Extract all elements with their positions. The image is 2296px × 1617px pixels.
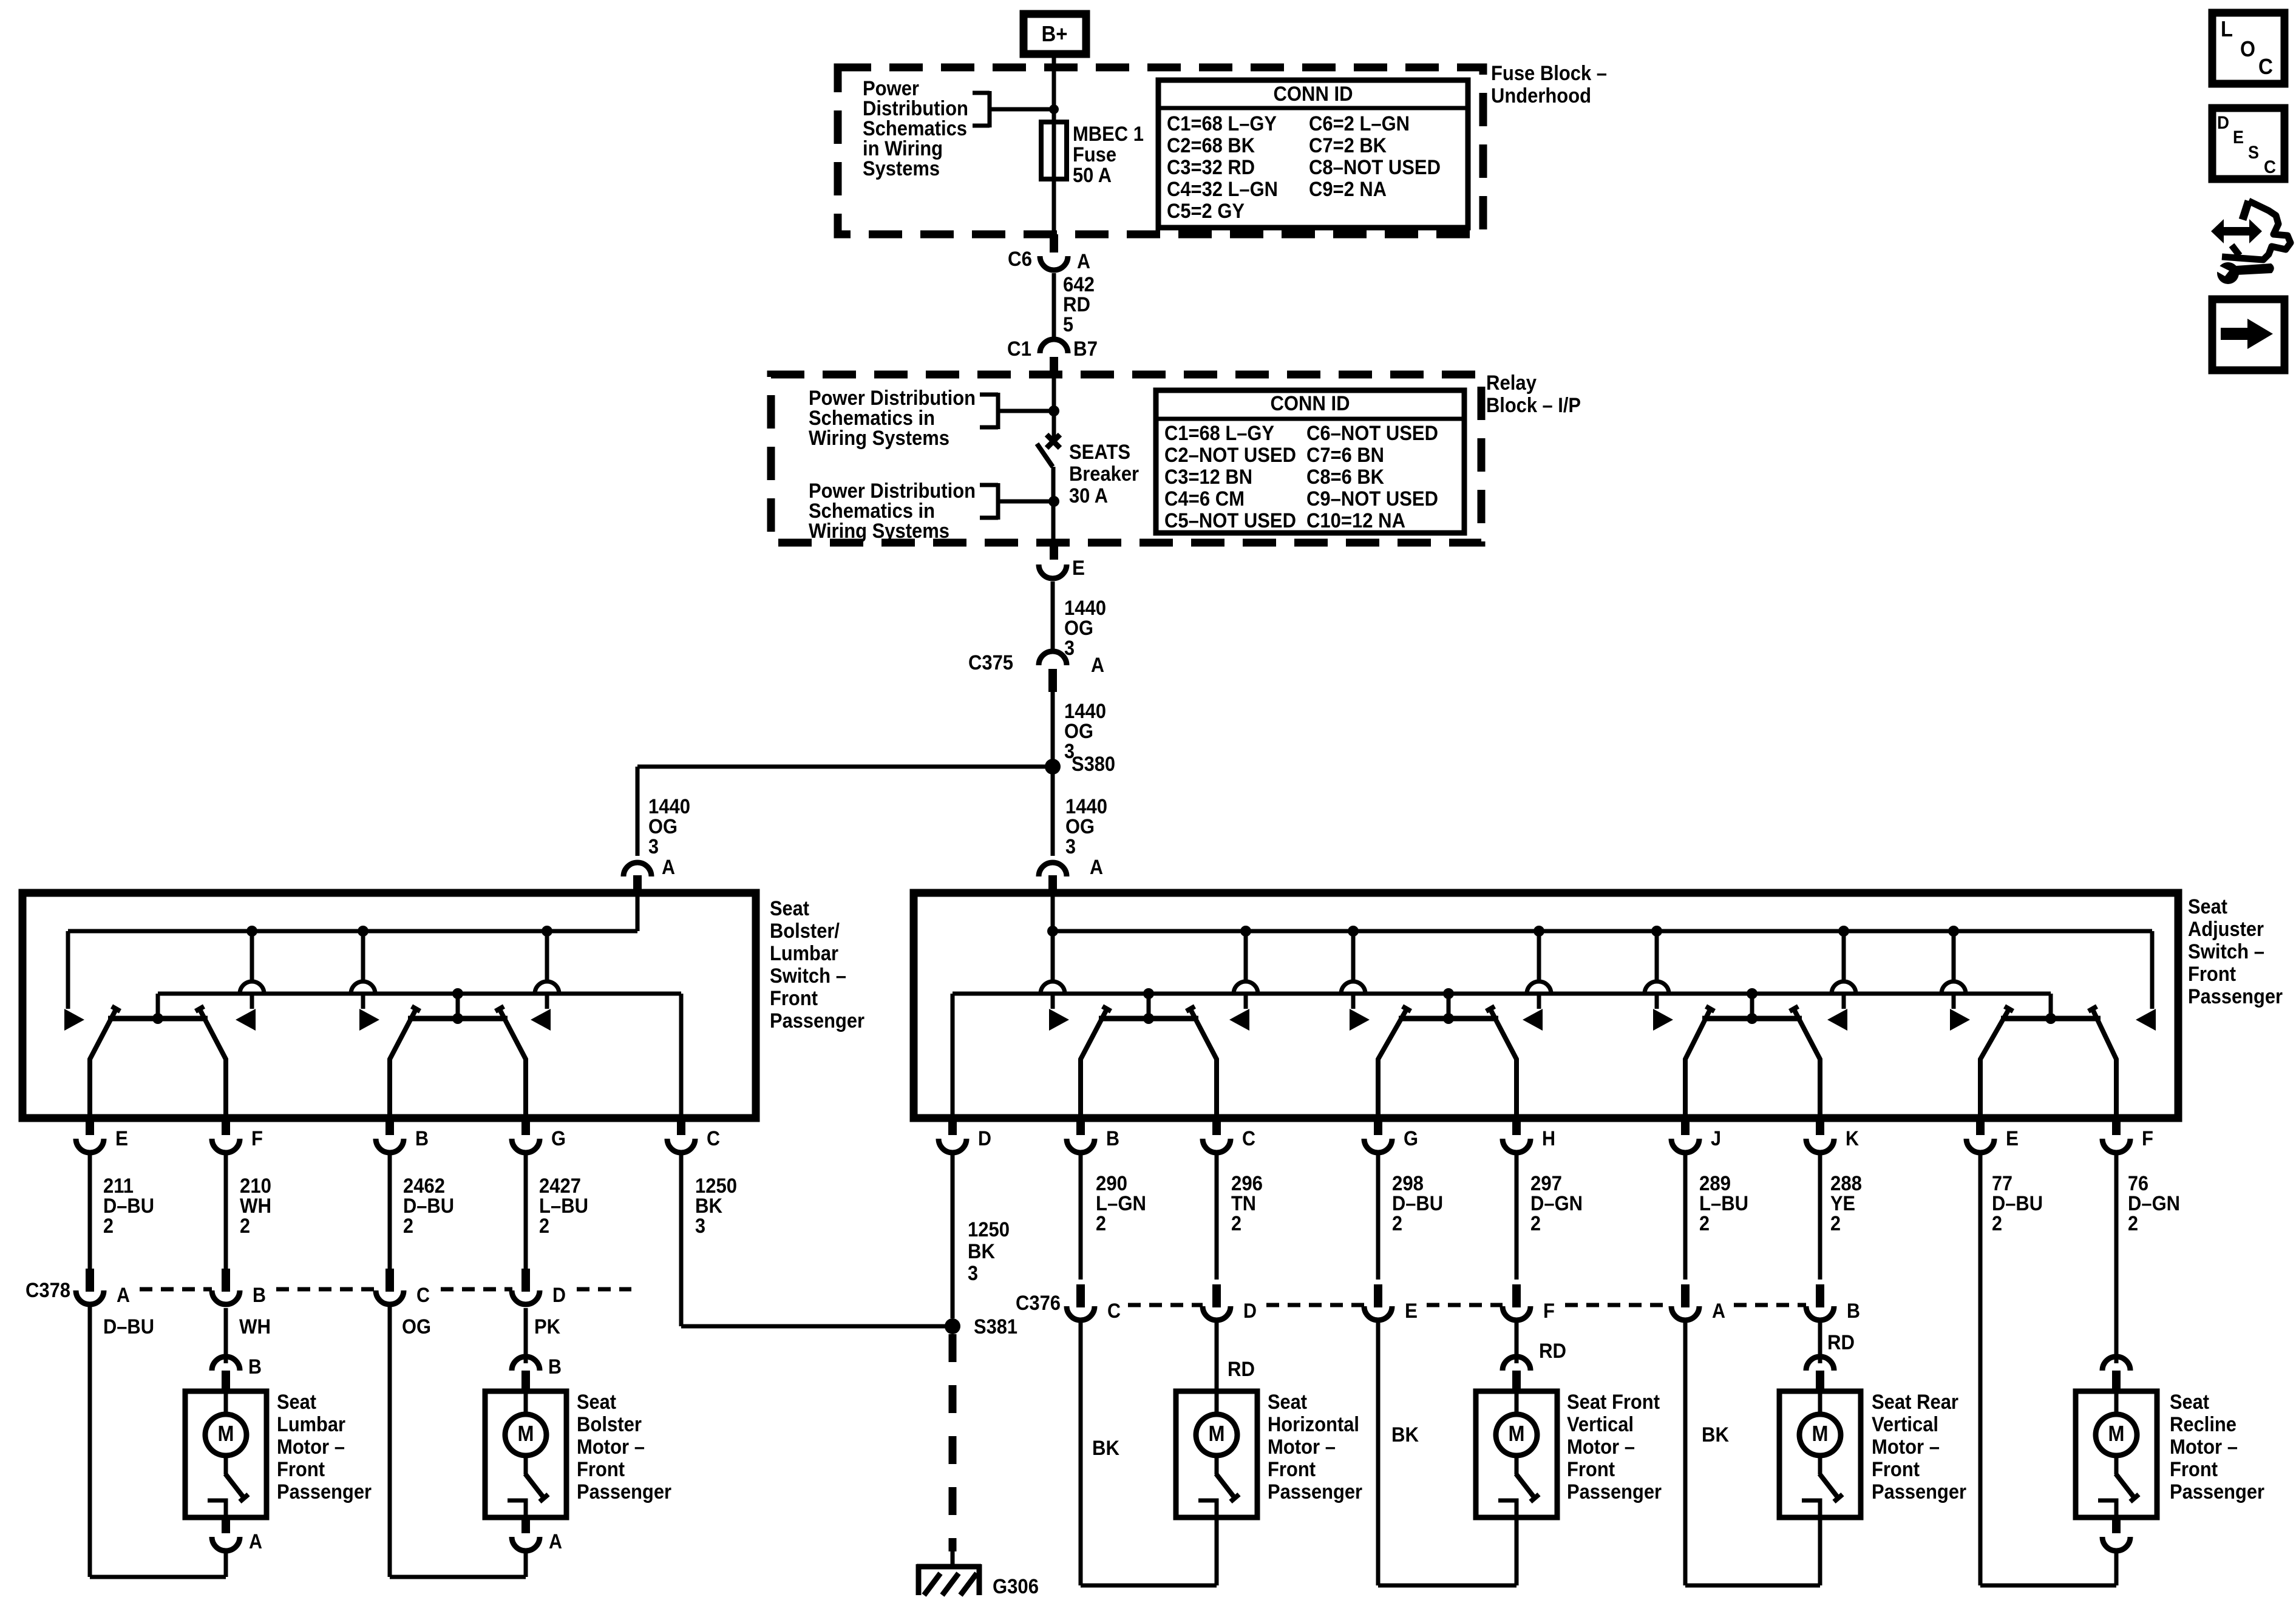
- switch bar (horizontal): [1081, 1006, 1217, 1118]
- svg-text:C: C: [2258, 54, 2273, 79]
- svg-text:Seat: Seat: [2170, 1391, 2209, 1414]
- svg-text:2: 2: [1992, 1212, 2002, 1235]
- svg-text:2: 2: [403, 1215, 413, 1238]
- svg-text:Seat: Seat: [577, 1391, 616, 1414]
- svg-text:Bolster: Bolster: [577, 1413, 642, 1436]
- svg-text:Fuse: Fuse: [1073, 143, 1116, 166]
- wire B+ to fuse: [1052, 58, 1056, 122]
- svg-text:E: E: [115, 1127, 128, 1150]
- connector A (left switch feed): [623, 856, 675, 896]
- pin B (right box): [1067, 1118, 1119, 1153]
- svg-text:Motor –: Motor –: [2170, 1436, 2238, 1459]
- svg-text:Underhood: Underhood: [1491, 84, 1591, 107]
- svg-text:H: H: [1542, 1127, 1555, 1150]
- node bus1 dot x2729: [1651, 926, 1662, 937]
- fuse MBEC 1 50A: [1041, 122, 1067, 179]
- svg-text:B: B: [1847, 1300, 1860, 1323]
- power distribution schematics text 2 (relay block): [809, 480, 976, 543]
- svg-text:G: G: [551, 1127, 566, 1150]
- svg-text:C8=6 BK: C8=6 BK: [1306, 466, 1384, 489]
- svg-text:C9–NOT USED: C9–NOT USED: [1306, 487, 1438, 510]
- pin G (left box): [512, 1118, 566, 1153]
- svg-text:2: 2: [1231, 1212, 1241, 1235]
- svg-text:MBEC 1: MBEC 1: [1073, 123, 1144, 146]
- wire branch S380 to left: [637, 767, 1053, 856]
- svg-text:C: C: [707, 1127, 720, 1150]
- svg-text:B: B: [248, 1355, 262, 1378]
- svg-text:C4=6 CM: C4=6 CM: [1164, 487, 1245, 510]
- pin C (left box): [667, 1118, 720, 1153]
- svg-text:Passenger: Passenger: [1872, 1480, 1966, 1503]
- label PK: [534, 1315, 560, 1338]
- svg-text:G: G: [1404, 1127, 1418, 1150]
- node bus1 dot pin A: [1047, 926, 1058, 937]
- svg-text:Recline: Recline: [2170, 1413, 2237, 1436]
- wire 1250 BK 3 (right): [953, 1153, 1010, 1318]
- svg-text:A: A: [662, 856, 675, 879]
- svg-text:A: A: [1077, 250, 1090, 273]
- svg-text:BK: BK: [1702, 1423, 1729, 1446]
- connector C376 pin A: [1671, 1284, 1725, 1323]
- svg-text:B7: B7: [1073, 337, 1098, 361]
- svg-text:2: 2: [1699, 1212, 1710, 1235]
- svg-text:D: D: [1243, 1300, 1257, 1323]
- label Fuse Block - Underhood: [1491, 62, 1607, 107]
- svg-text:Breaker: Breaker: [1069, 463, 1139, 486]
- node bus2 dot x754: [452, 988, 463, 1019]
- wire 642 RD 5: [1054, 273, 1095, 341]
- svg-text:C10=12 NA: C10=12 NA: [1306, 509, 1405, 532]
- svg-text:C: C: [1107, 1300, 1121, 1323]
- svg-text:Switch –: Switch –: [770, 964, 846, 988]
- wire 290 L-GN 2: [1081, 1153, 1146, 1280]
- label BK (col G): [1391, 1423, 1419, 1446]
- svg-text:C1: C1: [1007, 337, 1031, 361]
- wire 1440 OG 3 (middle): [1053, 692, 1106, 763]
- svg-text:A: A: [117, 1284, 130, 1307]
- wire return C376-A to rear vertical motor: [1683, 1322, 1688, 1585]
- node bus1 dot x2052: [1240, 926, 1251, 937]
- node bus2 dot x2886: [1747, 988, 1758, 1019]
- wire fuse to connector C6: [1052, 179, 1056, 236]
- seat adjuster switch box: [914, 893, 2178, 1118]
- svg-text:3: 3: [1065, 835, 1076, 858]
- wire return C376-C to horizontal motor: [1079, 1322, 1083, 1585]
- svg-text:C7=6 BN: C7=6 BN: [1306, 444, 1384, 467]
- svg-text:Motor –: Motor –: [1567, 1436, 1635, 1459]
- svg-text:Passenger: Passenger: [1268, 1480, 1362, 1503]
- pin E (left box): [76, 1118, 128, 1153]
- icon forward arrow box: [2212, 299, 2284, 370]
- connector C1 pin B7: [1007, 337, 1098, 376]
- svg-text:C2–NOT USED: C2–NOT USED: [1164, 444, 1296, 467]
- wire 77 D-BU 2: [1980, 1153, 2043, 1585]
- svg-text:Seat: Seat: [770, 897, 809, 920]
- bus wire (left box common rail): [158, 994, 681, 1118]
- node bus1 dot x2535: [1533, 926, 1544, 937]
- svg-text:Seat Front: Seat Front: [1567, 1391, 1660, 1414]
- svg-text:WH: WH: [239, 1315, 271, 1338]
- svg-text:2: 2: [1530, 1212, 1541, 1235]
- bracket 2 (relay text to wire): [980, 483, 1054, 520]
- svg-text:Passenger: Passenger: [277, 1480, 372, 1503]
- svg-text:C5–NOT USED: C5–NOT USED: [1164, 509, 1296, 532]
- contact drop x598: [351, 931, 379, 1031]
- svg-text:S381: S381: [974, 1315, 1017, 1338]
- motor seat rear vertical (front passenger): [1685, 1318, 1966, 1585]
- svg-text:Front: Front: [2188, 963, 2236, 986]
- svg-text:Motor –: Motor –: [577, 1436, 645, 1459]
- contact drop x2729: [1645, 931, 1673, 1031]
- node bus1 dot x415: [246, 926, 257, 937]
- CONN ID table (fuse block): [1158, 80, 1468, 228]
- svg-text:2: 2: [103, 1215, 114, 1238]
- svg-text:Passenger: Passenger: [2188, 985, 2283, 1008]
- label BK (col J): [1702, 1423, 1729, 1446]
- connector C376 dashed line: [1128, 1303, 1806, 1307]
- splice S381: [945, 1315, 1017, 1338]
- svg-text:2: 2: [1392, 1212, 1402, 1235]
- svg-text:Lumbar: Lumbar: [770, 942, 838, 965]
- svg-text:Seat: Seat: [1268, 1391, 1307, 1414]
- battery feed B+ symbol: [1024, 14, 1086, 54]
- svg-text:C376: C376: [1016, 1292, 1061, 1315]
- svg-text:2: 2: [2128, 1212, 2138, 1235]
- svg-text:Switch –: Switch –: [2188, 940, 2264, 963]
- pin F (left box): [212, 1118, 263, 1153]
- svg-text:CONN ID: CONN ID: [1274, 83, 1353, 106]
- svg-text:A: A: [1091, 654, 1104, 677]
- switch bar (rear vertical): [1685, 1006, 1820, 1118]
- contact drop pin A: [1041, 931, 1069, 1031]
- svg-text:BK: BK: [1092, 1437, 1119, 1460]
- svg-text:S380: S380: [1072, 753, 1115, 776]
- switch bar (front vertical): [1378, 1006, 1517, 1118]
- svg-text:Front: Front: [577, 1458, 625, 1481]
- bus wire (right box B+ rail): [1053, 929, 2152, 934]
- svg-text:M: M: [518, 1421, 534, 1446]
- svg-text:BK: BK: [968, 1240, 995, 1263]
- label Relay Block - I/P: [1486, 371, 1581, 417]
- svg-text:2: 2: [1096, 1212, 1106, 1235]
- connector pin E (relay block bottom): [1039, 543, 1085, 580]
- svg-text:M: M: [2108, 1421, 2125, 1446]
- svg-text:C8–NOT USED: C8–NOT USED: [1309, 156, 1441, 179]
- svg-text:F: F: [1543, 1300, 1555, 1323]
- svg-text:O: O: [2240, 36, 2255, 61]
- svg-text:PK: PK: [534, 1315, 560, 1338]
- svg-text:Block – I/P: Block – I/P: [1486, 394, 1581, 417]
- contact drop x901: [531, 931, 559, 1031]
- svg-text:CONN ID: CONN ID: [1271, 392, 1350, 415]
- connector C376 label: [1016, 1292, 1061, 1315]
- pin K (right box): [1806, 1118, 1859, 1153]
- contact drop x415: [236, 931, 264, 1031]
- icon harness routing (arrows and wrench): [2211, 201, 2291, 284]
- svg-text:Vertical: Vertical: [1567, 1413, 1634, 1436]
- svg-text:Fuse Block –: Fuse Block –: [1491, 62, 1607, 85]
- svg-text:Passenger: Passenger: [1567, 1480, 1662, 1503]
- svg-text:C375: C375: [968, 651, 1013, 674]
- svg-text:OG: OG: [402, 1315, 431, 1338]
- svg-text:C: C: [416, 1284, 430, 1307]
- connector A (right switch feed): [1039, 856, 1103, 896]
- pin E (right box): [1966, 1118, 2019, 1153]
- svg-text:Motor –: Motor –: [277, 1436, 345, 1459]
- wire 296 TN 2: [1217, 1153, 1263, 1280]
- connector C378 pin B: [212, 1269, 266, 1307]
- bracket (fuse block text to wire): [973, 91, 1054, 127]
- connector C378 label: [25, 1279, 70, 1302]
- svg-text:2: 2: [1830, 1212, 1841, 1235]
- label WH: [239, 1315, 271, 1338]
- svg-text:Front: Front: [1872, 1458, 1920, 1481]
- svg-text:RD: RD: [1228, 1358, 1255, 1381]
- relay block - I/P dashed box: [771, 375, 1481, 543]
- connector C378 pin D: [512, 1269, 566, 1307]
- contact drop x2229: [1341, 931, 1370, 1031]
- label RD (horizontal motor): [1228, 1358, 1255, 1381]
- svg-text:K: K: [1846, 1127, 1859, 1150]
- contact drop right end: [2136, 931, 2156, 1031]
- pin G (right box): [1364, 1118, 1418, 1153]
- label D-BU: [103, 1315, 154, 1338]
- power distribution schematics text (fuse block): [863, 77, 968, 180]
- svg-text:BK: BK: [1391, 1423, 1419, 1446]
- svg-text:Seat: Seat: [277, 1391, 316, 1414]
- bus wire (right box common rail): [953, 994, 2051, 1118]
- CONN ID table (relay block): [1156, 390, 1464, 533]
- svg-text:A: A: [1090, 856, 1103, 879]
- wire 297 D-GN 2: [1517, 1153, 1583, 1280]
- svg-text:3: 3: [648, 835, 659, 858]
- wire 2462 D-BU 2: [390, 1153, 454, 1270]
- svg-text:Front: Front: [277, 1458, 325, 1481]
- svg-text:D: D: [552, 1284, 566, 1307]
- connector C376 pin B: [1806, 1284, 1860, 1323]
- node junction at fuse top: [1049, 104, 1059, 114]
- svg-text:S: S: [2248, 143, 2259, 163]
- svg-text:C3=12 BN: C3=12 BN: [1164, 466, 1252, 489]
- dashed ground wire: [949, 1334, 957, 1567]
- svg-text:Wiring Systems: Wiring Systems: [809, 520, 949, 543]
- svg-text:5: 5: [1063, 313, 1073, 336]
- motor seat recline (front passenger): [1980, 1352, 2264, 1585]
- pin C (right box): [1203, 1118, 1255, 1153]
- svg-text:M: M: [1509, 1421, 1525, 1446]
- pin D (right box): [939, 1118, 991, 1153]
- svg-text:C4=32 L–GN: C4=32 L–GN: [1167, 178, 1278, 201]
- svg-text:2: 2: [240, 1215, 250, 1238]
- bus wire (left box B+ rail): [68, 929, 637, 934]
- splice S380: [1045, 753, 1115, 776]
- svg-text:E: E: [2233, 127, 2244, 147]
- svg-text:Motor –: Motor –: [1268, 1436, 1336, 1459]
- svg-text:C6–NOT USED: C6–NOT USED: [1306, 422, 1438, 445]
- wire 2427 L-BU 2: [526, 1153, 588, 1270]
- node bus2 dot x1892: [1143, 988, 1154, 1019]
- svg-text:B: B: [415, 1127, 429, 1150]
- motor seat bolster (front passenger): [390, 1308, 671, 1577]
- svg-text:Systems: Systems: [863, 157, 940, 180]
- label SEATS Breaker 30 A: [1069, 441, 1139, 507]
- svg-text:G306: G306: [993, 1575, 1039, 1598]
- svg-text:C6=2 L–GN: C6=2 L–GN: [1309, 112, 1410, 135]
- connector C376 pin E: [1364, 1284, 1418, 1323]
- bracket 1 (relay text to wire): [980, 393, 1054, 429]
- connector C378 pin A: [76, 1269, 130, 1307]
- svg-text:Front: Front: [1268, 1458, 1316, 1481]
- svg-text:50 A: 50 A: [1073, 164, 1112, 187]
- svg-text:C: C: [2264, 157, 2276, 177]
- svg-text:D–BU: D–BU: [103, 1315, 154, 1338]
- svg-text:Motor –: Motor –: [1872, 1436, 1940, 1459]
- pin H (right box): [1503, 1118, 1555, 1153]
- switch bar (lumbar): [90, 1006, 226, 1118]
- svg-text:Lumbar: Lumbar: [277, 1413, 345, 1436]
- connector C376 pin D: [1203, 1284, 1257, 1323]
- svg-text:E: E: [2006, 1127, 2019, 1150]
- svg-text:RD: RD: [1827, 1331, 1855, 1354]
- svg-text:Front: Front: [2170, 1458, 2218, 1481]
- SEATS breaker 30A: [1037, 376, 1060, 543]
- svg-text:Passenger: Passenger: [577, 1480, 671, 1503]
- fuse block - underhood dashed box: [838, 67, 1483, 234]
- svg-text:2: 2: [539, 1215, 549, 1238]
- svg-text:C1=68 L–GY: C1=68 L–GY: [1164, 422, 1274, 445]
- node bus1 dot x3037: [1838, 926, 1849, 937]
- svg-text:Front: Front: [1567, 1458, 1615, 1481]
- svg-text:Passenger: Passenger: [2170, 1480, 2264, 1503]
- wire 76 D-GN 2: [2116, 1153, 2180, 1352]
- wire 298 D-BU 2: [1378, 1153, 1443, 1280]
- switch bar (recline): [1980, 1006, 2116, 1118]
- power distribution schematics text 1 (relay block): [809, 387, 976, 450]
- icon DESC box: [2212, 108, 2284, 179]
- svg-text:Seat: Seat: [2188, 895, 2227, 918]
- pin B (left box): [376, 1118, 429, 1153]
- node bus1 dot x598: [358, 926, 369, 937]
- svg-text:M: M: [1812, 1421, 1829, 1446]
- svg-text:Horizontal: Horizontal: [1268, 1413, 1359, 1436]
- node bus1 dot x901: [542, 926, 552, 937]
- svg-text:30 A: 30 A: [1069, 484, 1108, 507]
- svg-text:M: M: [218, 1421, 234, 1446]
- connector C375 pin A: [968, 651, 1104, 692]
- svg-text:1250: 1250: [968, 1218, 1010, 1241]
- svg-text:D: D: [978, 1127, 991, 1150]
- svg-text:Front: Front: [770, 987, 818, 1010]
- svg-text:Vertical: Vertical: [1872, 1413, 1938, 1436]
- svg-text:Adjuster: Adjuster: [2188, 918, 2264, 941]
- icon LOC box: [2212, 13, 2284, 84]
- svg-text:Passenger: Passenger: [770, 1009, 864, 1032]
- svg-text:C5=2 GY: C5=2 GY: [1167, 200, 1245, 223]
- wire 1250 BK 3 (left): [681, 1153, 737, 1326]
- wire 1440 OG 3 (upper): [1053, 581, 1106, 660]
- wire 210 WH 2: [226, 1153, 271, 1270]
- connector C6 pin A: [1008, 234, 1090, 273]
- node bus1 dot x2229: [1348, 926, 1359, 937]
- svg-text:Seat Rear: Seat Rear: [1872, 1391, 1958, 1414]
- svg-text:F: F: [2142, 1127, 2153, 1150]
- connector C378 pin C: [376, 1269, 430, 1307]
- node bus2 dot x2386: [1443, 988, 1454, 1019]
- contact drop x3037: [1827, 931, 1856, 1031]
- label MBEC 1 Fuse 50 A: [1073, 123, 1144, 187]
- svg-text:B: B: [253, 1284, 266, 1307]
- label RD (rear vertical motor): [1827, 1331, 1855, 1354]
- wire feed A into left box: [636, 896, 640, 931]
- svg-text:C3=32 RD: C3=32 RD: [1167, 156, 1255, 179]
- wire return B to bolster motor: [388, 1306, 392, 1577]
- motor seat front vertical (front passenger): [1378, 1318, 1662, 1585]
- label OG: [402, 1315, 431, 1338]
- contact drop x3218: [1941, 931, 1970, 1031]
- svg-text:E: E: [1405, 1300, 1418, 1323]
- svg-text:B: B: [548, 1355, 562, 1378]
- svg-text:A: A: [1712, 1300, 1725, 1323]
- svg-text:Bolster/: Bolster/: [770, 920, 840, 943]
- wire return E to lumbar motor: [88, 1306, 92, 1577]
- svg-text:C9=2 NA: C9=2 NA: [1309, 178, 1387, 201]
- svg-text:J: J: [1711, 1127, 1721, 1150]
- node bus1 dot x3218: [1948, 926, 1959, 937]
- svg-text:F: F: [251, 1127, 263, 1150]
- label RD (front vertical motor): [1539, 1340, 1566, 1363]
- svg-text:C378: C378: [25, 1279, 70, 1302]
- wire 1440 OG 3 (right main): [1053, 767, 1107, 858]
- svg-text:M: M: [1209, 1421, 1225, 1446]
- contact drop x2535: [1523, 931, 1551, 1031]
- svg-text:C2=68 BK: C2=68 BK: [1167, 134, 1255, 157]
- wire 289 L-BU 2: [1685, 1153, 1748, 1280]
- contact drop left end: [64, 931, 84, 1031]
- svg-text:L: L: [2221, 16, 2233, 41]
- wire 288 YE 2: [1820, 1153, 1862, 1280]
- svg-text:B+: B+: [1042, 21, 1068, 46]
- svg-text:B: B: [1106, 1127, 1119, 1150]
- wire 1440 OG 3 (left branch): [648, 795, 690, 858]
- svg-text:C1=68 L–GY: C1=68 L–GY: [1167, 112, 1277, 135]
- svg-text:C7=2 BK: C7=2 BK: [1309, 134, 1387, 157]
- label Seat Bolster/Lumbar Switch - Front Passenger: [770, 897, 864, 1032]
- connector C376 pin C: [1067, 1284, 1121, 1323]
- svg-text:Wiring Systems: Wiring Systems: [809, 427, 949, 450]
- svg-text:Relay: Relay: [1486, 371, 1537, 395]
- svg-text:SEATS: SEATS: [1069, 441, 1130, 464]
- connector C378 dashed line: [140, 1287, 631, 1292]
- svg-text:A: A: [249, 1530, 262, 1553]
- svg-text:E: E: [1072, 557, 1085, 580]
- svg-text:RD: RD: [1539, 1340, 1566, 1363]
- svg-text:C: C: [1242, 1127, 1255, 1150]
- wire pin C to splice S381: [681, 1324, 953, 1329]
- wire feed A into right box: [1051, 896, 1055, 931]
- wire 211 D-BU 2: [90, 1153, 154, 1270]
- svg-text:3: 3: [968, 1262, 978, 1285]
- label Seat Adjuster Switch - Front Passenger: [2188, 895, 2283, 1008]
- ground G306: [917, 1564, 1039, 1598]
- svg-text:C6: C6: [1008, 248, 1032, 271]
- motor seat horizontal (front passenger): [1081, 1318, 1362, 1585]
- connector C376 pin F: [1503, 1284, 1555, 1323]
- pin J (right box): [1671, 1118, 1721, 1153]
- seat bolster/lumbar switch box: [22, 893, 756, 1118]
- wire return C376-E to front vertical motor: [1376, 1322, 1381, 1585]
- svg-text:3: 3: [695, 1215, 705, 1238]
- contact drop x2052: [1229, 931, 1258, 1031]
